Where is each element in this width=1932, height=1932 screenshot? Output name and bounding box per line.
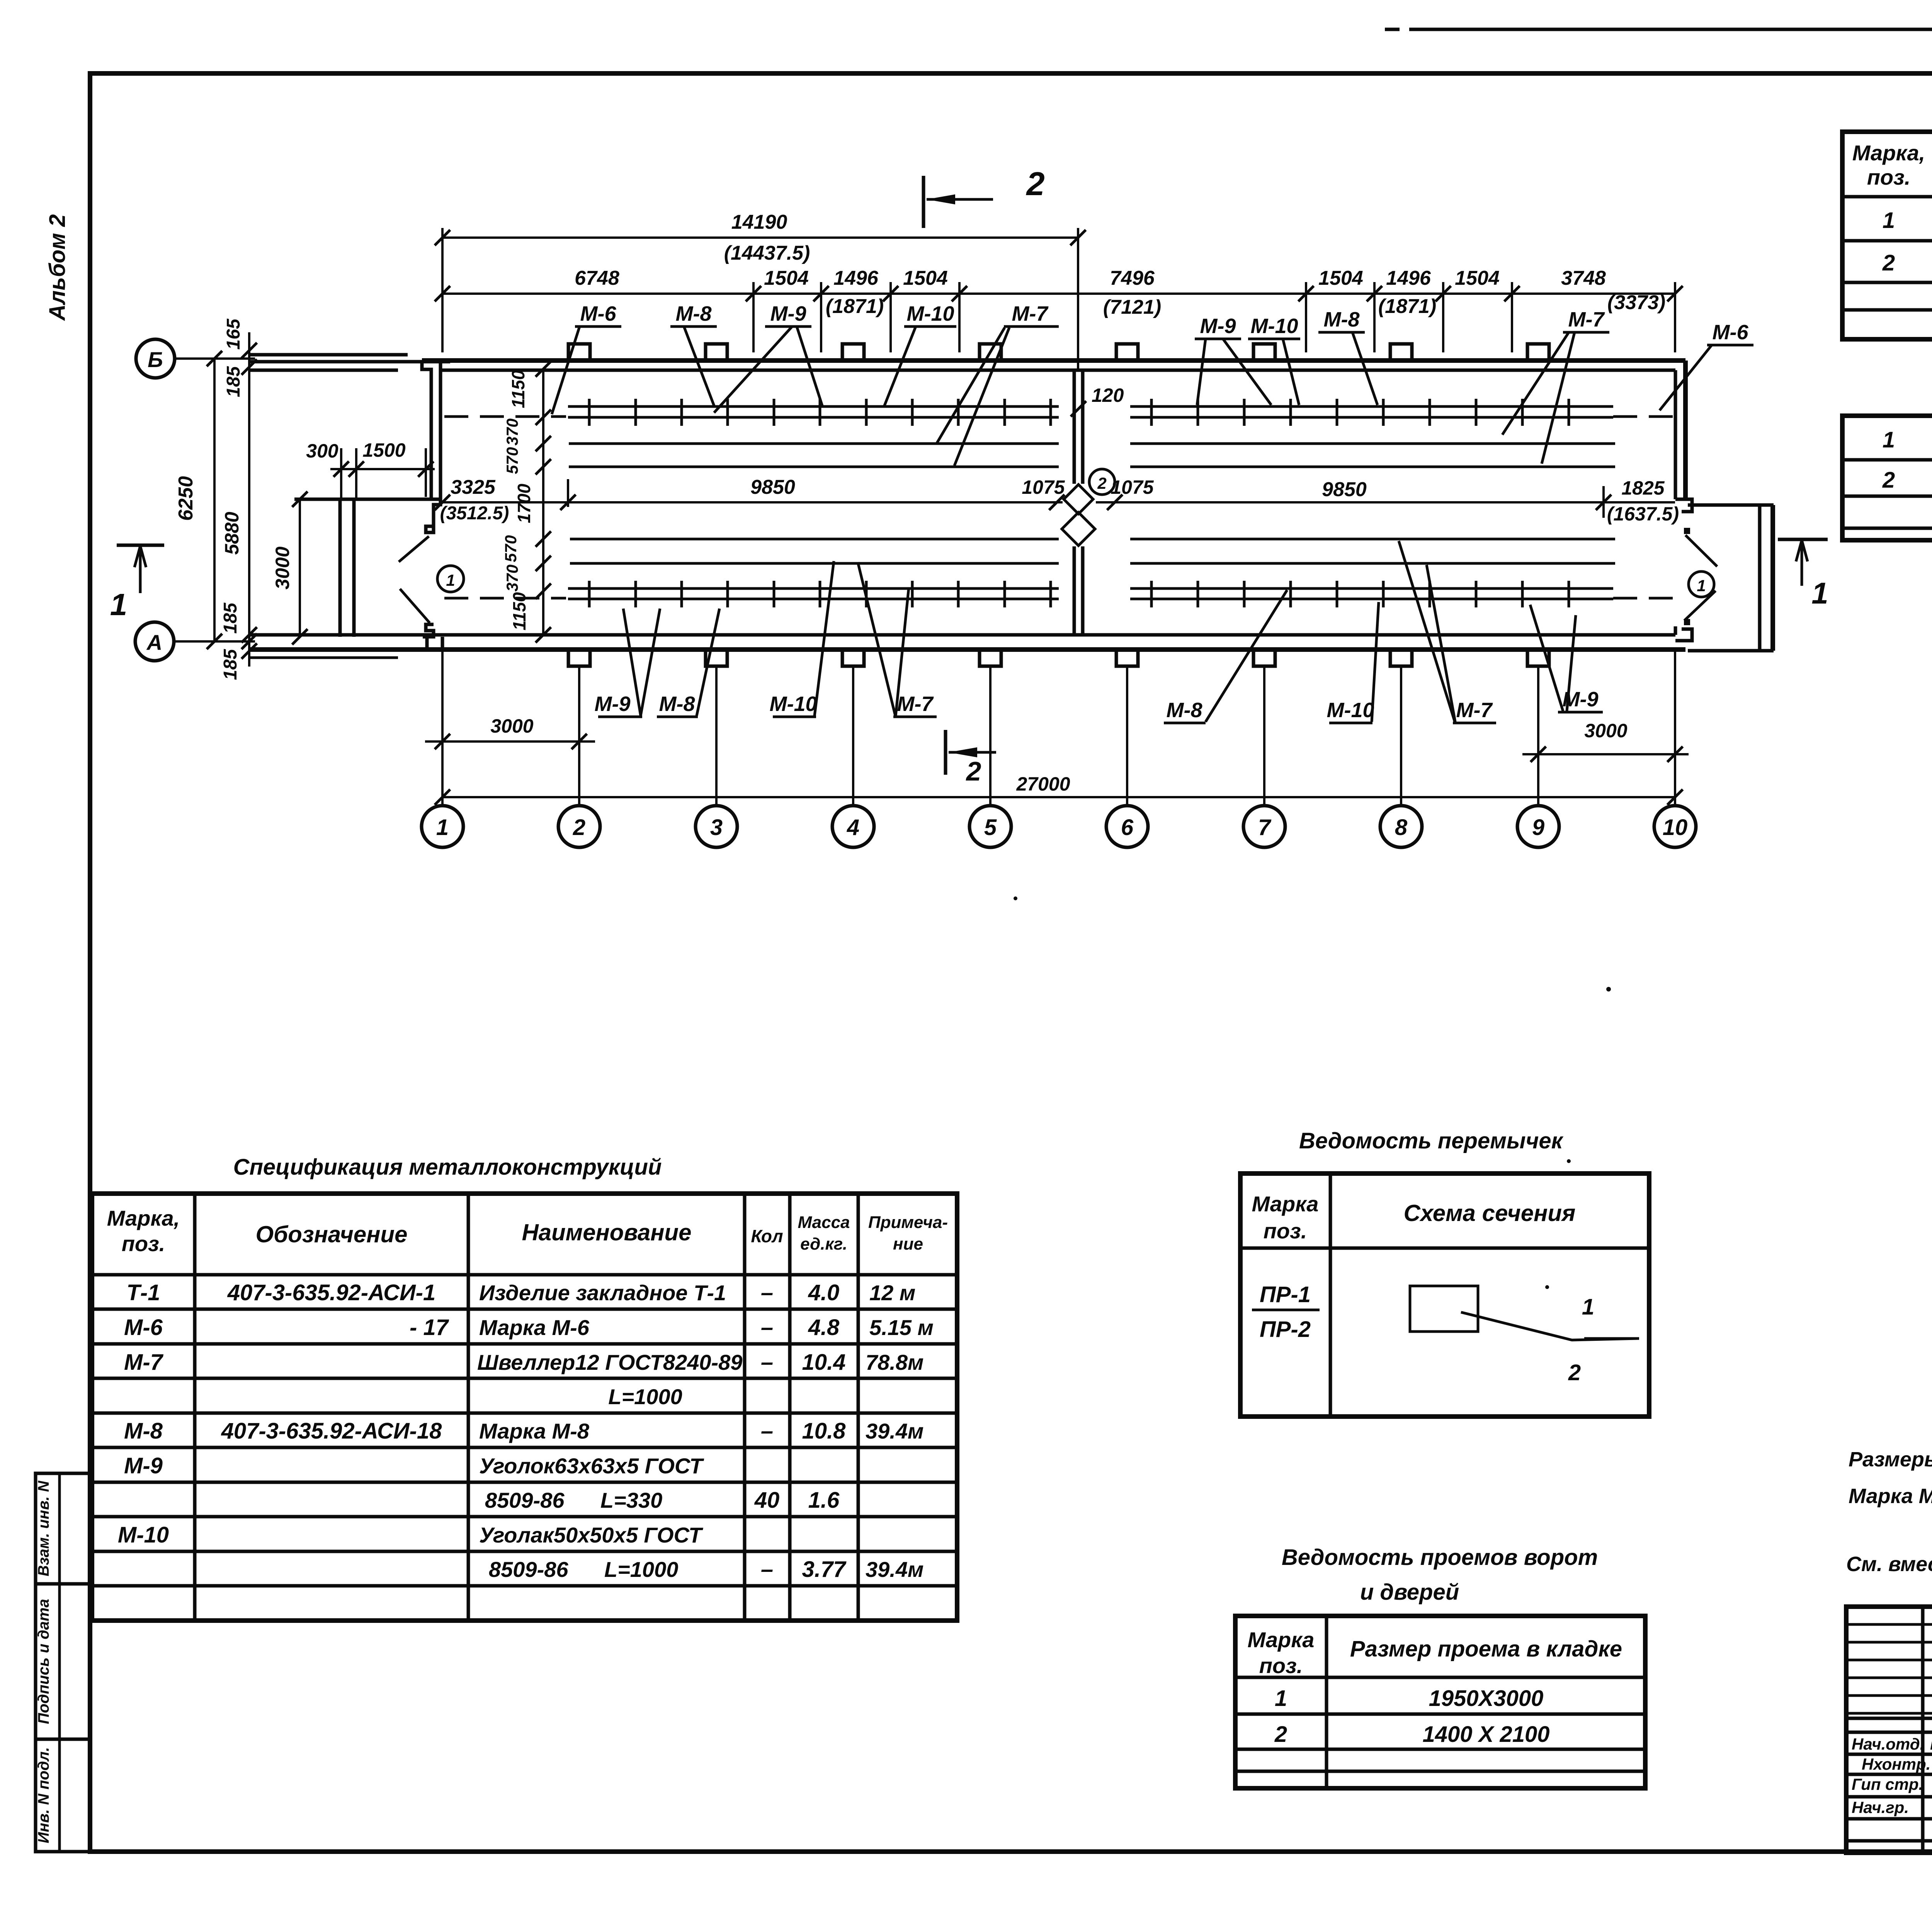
table grid [1842,132,1932,339]
svg-text:1496: 1496 [1386,267,1431,289]
svg-text:370: 370 [503,418,521,446]
stray scan dots [1606,987,1611,992]
svg-text:М-6: М-6 [580,302,617,325]
upper channel ladder left bay [568,399,1059,426]
svg-text:39.4м: 39.4м [866,1419,923,1443]
svg-text:1.6: 1.6 [808,1488,840,1513]
svg-text:Обозначение: Обозначение [255,1221,407,1247]
full width line under doc number [1846,1717,1932,1720]
svg-text:–: – [761,1557,773,1582]
svg-text:3: 3 [710,815,723,840]
svg-text:1075: 1075 [1022,476,1065,498]
svg-text:10.4: 10.4 [802,1350,846,1375]
svg-text:3748: 3748 [1561,267,1606,289]
top band line [1409,28,1932,31]
svg-text:3325: 3325 [451,476,496,498]
left door bottom jamb [423,624,434,637]
section mark 2 top [922,176,925,228]
svg-text:3.77: 3.77 [802,1557,847,1582]
svg-text:М-7: М-7 [1456,699,1493,722]
SECTION:TITLEBLOCK [1846,1607,1932,1853]
svg-text:1400 Х 2100: 1400 Х 2100 [1423,1722,1550,1747]
svg-text:6250: 6250 [175,476,197,521]
dashed M-6 line lower right [1613,597,1674,600]
svg-text:2: 2 [1882,468,1895,493]
svg-text:6748: 6748 [575,267,619,289]
svg-text:8: 8 [1395,815,1408,840]
svg-text:М-9: М-9 [595,692,631,716]
svg-text:Спецификация металлоконструкц: Спецификация металлоконструкций [233,1155,662,1180]
svg-text:78.8м: 78.8м [866,1350,923,1374]
svg-text:Марка: Марка [1248,1628,1315,1652]
svg-text:407-3-635.92-АСИ-18: 407-3-635.92-АСИ-18 [221,1418,442,1444]
svg-text:1: 1 [110,587,128,622]
svg-text:Марка,: Марка, [107,1206,180,1230]
svg-text:Кол: Кол [751,1226,783,1246]
svg-text:–: – [761,1280,773,1305]
bottom dim 3000 left [425,740,595,743]
svg-text:–: – [761,1350,773,1375]
left door top jamb [423,499,440,532]
svg-text:570: 570 [503,447,521,474]
svg-text:407-3-635.92-АСИ-1: 407-3-635.92-АСИ-1 [227,1280,436,1305]
svg-text:8509-86 L=330: 8509-86 L=330 [485,1488,662,1512]
svg-text:ед.кг.: ед.кг. [800,1235,847,1253]
svg-text:1496: 1496 [833,267,879,289]
svg-text:1150: 1150 [508,370,528,408]
svg-text:1504: 1504 [1318,267,1363,289]
bottom wall outer line [250,647,1685,652]
lower channel ladder left bay [568,581,1059,607]
vestibule dim 3000 vertical [299,499,301,637]
svg-text:1: 1 [1883,427,1895,452]
svg-text:2: 2 [1568,1360,1581,1385]
svg-text:1700: 1700 [514,483,534,523]
svg-text:Марка М-8: Марка М-8 [479,1419,590,1443]
dim 14190 line [442,236,1078,239]
svg-text:2: 2 [1026,166,1044,202]
svg-text:(1871): (1871) [826,295,884,318]
axis bubbles 1-10 [422,806,1696,847]
svg-text:185: 185 [220,649,241,680]
svg-text:Схема сечения: Схема сечения [1404,1200,1576,1226]
svg-text:Марка,: Марка, [1852,141,1925,165]
svg-text:6: 6 [1121,815,1134,840]
vertical dividers of left part [1921,1607,1925,1853]
svg-text:10.8: 10.8 [802,1418,846,1444]
table grid [92,1194,957,1621]
svg-text:8509-86 L=1000: 8509-86 L=1000 [489,1557,678,1582]
node circle 2 [1089,469,1115,495]
svg-text:Ведомость перемычек: Ведомость перемычек [1299,1128,1564,1153]
svg-text:Марка М-6 условно показана пун: Марка М-6 условно показана пунктиром. [1849,1485,1932,1508]
SECTION:LEFTSTAMPS [35,1473,90,1852]
svg-text:Взам. инв. N: Взам. инв. N [35,1480,52,1576]
extension lines from chain to wall [442,228,1675,369]
svg-text:570: 570 [502,535,520,562]
svg-text:М-8: М-8 [659,692,695,716]
svg-text:Примеча-: Примеча- [868,1213,948,1232]
svg-text:М-10: М-10 [769,692,817,716]
svg-text:М-8: М-8 [1167,699,1202,722]
dashed M-6 line upper right [1613,415,1674,418]
left wall [422,361,431,499]
centerline dim 9850 [442,501,1063,503]
ventilation diamond top [1064,485,1093,514]
ventilation diamond bottom [1062,512,1095,546]
svg-text:1: 1 [1697,577,1706,595]
svg-text:ПР-1: ПР-1 [1260,1282,1311,1307]
section mark 1 left [117,544,164,547]
bottom wall pilasters at axes 2-9 [568,650,1549,666]
section mark 1 right [1778,538,1828,541]
svg-text:Роменский: Роменский [1930,1735,1932,1753]
svg-text:7496: 7496 [1110,267,1155,289]
SECTION:MLABELS [552,302,1753,723]
svg-text:4: 4 [847,815,859,840]
svg-text:9850: 9850 [1322,478,1367,501]
svg-text:Уголок63х63х5 ГОСТ: Уголок63х63х5 ГОСТ [479,1454,704,1478]
svg-text:Наименование: Наименование [522,1219,691,1245]
SECTION:NOTES [1846,1448,1932,1576]
svg-text:Изделие закладное Т-1: Изделие закладное Т-1 [479,1281,726,1305]
svg-text:1075: 1075 [1111,476,1154,498]
svg-text:3000: 3000 [272,546,293,589]
svg-text:М-9: М-9 [124,1453,163,1478]
svg-text:М-10: М-10 [1250,315,1298,338]
SECTION:TABLE1 spec of openings [1842,100,1932,339]
svg-text:1504: 1504 [764,267,809,289]
table grid [1842,416,1932,540]
svg-text:Масса: Масса [798,1213,850,1232]
svg-text:и дверей: и дверей [1360,1580,1459,1605]
axis grid lines below building [442,651,1675,806]
lower single channel lines [570,538,1059,541]
svg-text:М-7: М-7 [1012,302,1049,325]
svg-text:2: 2 [966,756,981,786]
svg-text:М-10: М-10 [906,302,954,325]
right wall [1683,361,1688,499]
svg-text:2: 2 [573,815,585,840]
svg-text:1: 1 [436,815,449,840]
svg-text:2: 2 [1882,250,1895,276]
svg-text:поз.: поз. [1259,1653,1303,1678]
svg-text:185: 185 [223,366,244,397]
svg-text:М-8: М-8 [676,302,712,325]
upper single channel lines [569,442,1059,445]
svg-text:М-6: М-6 [124,1315,163,1340]
svg-text:Нач.отд.: Нач.отд. [1852,1735,1924,1753]
right door top jamb [1675,499,1692,512]
svg-text:5: 5 [984,815,997,840]
svg-text:120: 120 [1092,384,1124,406]
svg-text:1: 1 [1275,1686,1287,1711]
svg-text:Марка М-6: Марка М-6 [479,1315,590,1340]
svg-text:М-8: М-8 [1324,308,1360,331]
right door bottom jamb [1675,629,1692,641]
svg-text:5880: 5880 [221,512,243,554]
svg-text:Размеры в скобках даны на ток: Размеры в скобках даны на ток 3150А [1849,1448,1932,1471]
dim chain line top [442,293,1675,295]
svg-text:1: 1 [1883,208,1895,233]
lower channel ladder right bay [1130,581,1613,607]
svg-text:40: 40 [754,1488,780,1513]
svg-text:Нхонтр.: Нхонтр. [1862,1755,1930,1773]
svg-text:Марка: Марка [1252,1192,1319,1216]
svg-text:М-7: М-7 [897,692,934,716]
svg-text:3000: 3000 [1584,720,1627,742]
svg-text:Инв. N подл.: Инв. N подл. [35,1747,52,1844]
svg-text:2: 2 [1097,474,1106,492]
dashed M-6 line upper left [444,415,566,418]
svg-text:Подпись и дата: Подпись и дата [35,1599,52,1724]
svg-text:Ведомость проемов ворот: Ведомость проемов ворот [1282,1545,1598,1570]
svg-text:М-10: М-10 [1327,699,1374,722]
svg-text:10: 10 [1663,815,1688,840]
svg-text:(1871): (1871) [1378,295,1436,318]
svg-text:поз.: поз. [1264,1219,1307,1243]
svg-text:М-6: М-6 [1713,321,1749,344]
svg-text:М-10: М-10 [118,1522,169,1548]
partition wall at 120 [1073,370,1076,484]
svg-text:А: А [146,630,162,655]
svg-text:3000: 3000 [490,715,533,737]
svg-text:- 17: - 17 [410,1315,449,1340]
svg-text:370: 370 [503,565,521,592]
svg-text:185: 185 [220,602,241,634]
SECTION:TABLE5 door openings schedule [1235,1545,1645,1788]
svg-text:(3512.5): (3512.5) [440,503,509,524]
svg-text:Т-1: Т-1 [127,1280,160,1305]
svg-text:поз.: поз. [1867,165,1911,189]
SECTION:PLAN [249,344,1774,666]
left small rows [1846,1623,1932,1626]
bottom wall inner line [250,633,1675,637]
SECTION:TABLE2 spec of lintels [1842,384,1932,540]
vestibule dim 300 1500 [330,468,435,470]
svg-text:ПР-2: ПР-2 [1260,1317,1311,1342]
svg-text:L=1000: L=1000 [608,1384,682,1409]
top wall thin left extension lines [249,353,408,357]
left door swing leaf bottom [400,589,430,623]
svg-text:4.8: 4.8 [808,1315,840,1340]
svg-text:М-9: М-9 [1200,315,1236,338]
dashed M-6 line lower left [444,597,566,600]
SECTION:TABLE4 lintel schedule [1240,1128,1649,1417]
SECTION:TABLE3 metal structures spec [92,1155,957,1621]
svg-text:–: – [761,1418,773,1444]
svg-text:9850: 9850 [750,476,795,498]
interior vertical dim chain [542,369,544,635]
top wall pilasters at axes 2-9 [568,344,1549,361]
left dim chain 165 185 5880 185 185 [248,332,250,667]
svg-text:Размер проема в кладке: Размер проема в кладке [1350,1636,1622,1662]
svg-text:1: 1 [1811,576,1828,610]
left door swing leaf top [399,536,429,562]
svg-text:Б: Б [148,347,163,372]
axis A bubble [135,622,174,661]
svg-text:Гип стр.: Гип стр. [1852,1775,1923,1793]
section schema: rectangle with leader [1410,1286,1478,1332]
top wall outer line [422,358,1685,363]
svg-text:поз.: поз. [122,1231,165,1256]
svg-text:5.15 м: 5.15 м [869,1315,934,1340]
bottom dim 27000 [442,796,1675,798]
svg-text:4.0: 4.0 [808,1280,840,1305]
svg-text:1: 1 [1582,1294,1594,1320]
svg-text:(1637.5): (1637.5) [1607,503,1679,525]
right door swing leaves [1685,535,1717,566]
svg-text:–: – [761,1315,773,1340]
vestibule walls [338,499,342,637]
top wall inner line [440,369,1675,372]
bottom dim 3000 right [1522,753,1689,755]
upper channel ladder right bay [1130,399,1613,426]
svg-text:Нач.гр.: Нач.гр. [1852,1798,1909,1816]
svg-text:(7121): (7121) [1103,296,1161,318]
svg-text:7: 7 [1258,815,1272,840]
svg-text:М-7: М-7 [124,1350,164,1375]
opening mark circle 1 left [437,566,464,592]
svg-text:300: 300 [306,440,338,462]
SECTION:PLANDIMS [135,211,1696,847]
svg-text:1504: 1504 [1455,267,1500,289]
svg-text:М-8: М-8 [124,1418,163,1444]
svg-text:1504: 1504 [903,267,948,289]
svg-text:Уголак50х50х5 ГОСТ: Уголак50х50х5 ГОСТ [479,1523,704,1547]
svg-text:2: 2 [1274,1722,1287,1747]
section mark 2 bottom [944,730,947,775]
svg-text:1825: 1825 [1621,477,1665,499]
svg-text:12 м: 12 м [869,1281,915,1305]
svg-text:См. вместе с листом АС2-4: См. вместе с листом АС2-4 [1846,1553,1932,1576]
svg-text:М-9: М-9 [770,302,806,325]
right porch [1688,503,1774,507]
svg-text:14190: 14190 [731,211,787,233]
axis B bubble [136,339,175,378]
svg-text:9: 9 [1532,815,1544,840]
svg-text:1500: 1500 [362,439,405,461]
bottom wall extra ledge line left [250,656,398,659]
svg-text:1950Х3000: 1950Х3000 [1429,1686,1544,1711]
svg-text:1150: 1150 [509,592,529,630]
SECTION:SECTIONMARKS [110,166,1828,786]
svg-text:39.4м: 39.4м [866,1557,923,1582]
svg-text:Альбом 2: Альбом 2 [45,214,70,321]
svg-text:(3373): (3373) [1607,291,1665,314]
svg-text:27000: 27000 [1016,773,1070,795]
svg-text:М-7: М-7 [1568,308,1605,331]
opening mark circle 1 right [1689,571,1714,597]
svg-text:ние: ние [893,1235,923,1253]
svg-text:Швеллер12 ГОСТ8240-89: Швеллер12 ГОСТ8240-89 [477,1350,742,1374]
svg-text:(14437.5): (14437.5) [724,242,810,264]
svg-text:165: 165 [223,318,244,350]
svg-text:1: 1 [446,571,455,589]
dim 6250 vertical [213,359,216,641]
